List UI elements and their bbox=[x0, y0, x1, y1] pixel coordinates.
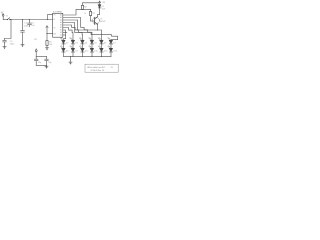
ground for oscillator bbox=[45, 65, 48, 69]
D12 label bbox=[104, 51, 107, 53]
wire osc rail bbox=[36, 55, 46, 57]
C4 value label bbox=[38, 62, 41, 64]
connector JP1 bbox=[35, 49, 37, 57]
LED D4 bbox=[79, 38, 84, 49]
LED D10 bbox=[79, 46, 84, 57]
LED D2 bbox=[60, 38, 65, 49]
D4 label bbox=[85, 43, 87, 45]
+9V supply symbol bbox=[99, 1, 106, 4]
svg-text:10n: 10n bbox=[31, 25, 34, 27]
svg-text:D11: D11 bbox=[94, 51, 97, 53]
node rail-C3 bbox=[29, 19, 30, 20]
svg-text:D4: D4 bbox=[85, 43, 87, 45]
capacitor C2 bbox=[3, 39, 7, 47]
wire pin stub 9 bbox=[63, 34, 66, 36]
switch S1 label bbox=[6, 16, 8, 18]
resistor R2 bbox=[81, 3, 83, 10]
svg-text:D8: D8 bbox=[66, 51, 68, 53]
resistor R3 bbox=[90, 9, 92, 21]
+V arrow for R1 pull-up bbox=[46, 26, 48, 28]
node pin1-R2 bbox=[82, 9, 83, 10]
diode D1 bbox=[98, 3, 101, 15]
svg-text:LED-Lauflicht mit PIC: LED-Lauflicht mit PIC bbox=[87, 66, 106, 69]
D7 label bbox=[113, 43, 115, 45]
wire bus W4 bbox=[63, 23, 92, 41]
svg-text:D2: D2 bbox=[66, 43, 68, 45]
LED D11 bbox=[89, 46, 94, 57]
IC U1 bbox=[53, 13, 63, 37]
svg-text:JP1: JP1 bbox=[34, 39, 37, 41]
svg-text:D6: D6 bbox=[104, 43, 106, 45]
wire osc bottom bbox=[36, 64, 46, 66]
svg-text:22p: 22p bbox=[48, 62, 51, 64]
node rail joints bbox=[73, 56, 103, 57]
ground for LED rail bbox=[69, 62, 72, 65]
svg-text:D12: D12 bbox=[104, 51, 107, 53]
ground for C2 bbox=[3, 47, 6, 50]
wire rail to ground bbox=[70, 56, 72, 62]
svg-text:S1: S1 bbox=[6, 16, 8, 18]
resistor R1 bbox=[46, 41, 48, 48]
wire bus W6 bbox=[63, 28, 73, 41]
wire pin stub 8 bbox=[63, 32, 67, 34]
C5 value label bbox=[48, 62, 51, 64]
capacitor C1 bbox=[21, 20, 25, 45]
wire to C2 bbox=[5, 20, 12, 39]
D6 label bbox=[104, 43, 106, 45]
capacitor C3 bbox=[28, 20, 32, 27]
D5 label bbox=[94, 43, 96, 45]
wire bus W3 bbox=[63, 20, 102, 40]
svg-text:4148: 4148 bbox=[102, 9, 106, 11]
IC U1 label bbox=[53, 12, 62, 14]
svg-text:D13: D13 bbox=[113, 51, 116, 53]
D2 label bbox=[66, 43, 68, 45]
wire top rail to +9V bbox=[83, 2, 100, 4]
wire bus W7 bbox=[63, 30, 66, 40]
wire pin1 node line bbox=[63, 9, 91, 15]
C1 value label bbox=[24, 23, 28, 28]
capacitor C5 bbox=[45, 56, 49, 65]
svg-text:D9: D9 bbox=[75, 51, 77, 53]
D8 label bbox=[66, 51, 68, 53]
C3 value label bbox=[31, 22, 34, 27]
R3 value label bbox=[92, 13, 94, 15]
svg-text:R2: R2 bbox=[84, 7, 86, 9]
LED D13 bbox=[108, 46, 113, 57]
D10 label bbox=[85, 51, 88, 53]
connector JP1 label bbox=[34, 39, 37, 41]
LED D3 bbox=[70, 38, 75, 49]
transistor T1 bbox=[93, 15, 100, 30]
battery BT1 label bbox=[1, 12, 4, 14]
svg-text:D7: D7 bbox=[113, 43, 115, 45]
title block text bbox=[87, 66, 113, 72]
LED D5 bbox=[89, 38, 94, 49]
title block frame bbox=[85, 64, 118, 72]
D3 label bbox=[75, 43, 77, 45]
wire base bbox=[91, 20, 95, 22]
D13 label bbox=[113, 51, 116, 53]
node rail-ground bbox=[70, 56, 71, 57]
svg-text:10k: 10k bbox=[49, 44, 52, 46]
wire MCLR column bbox=[46, 28, 52, 41]
LED D8 bbox=[60, 46, 65, 57]
LED D9 bbox=[70, 46, 75, 57]
D9 label bbox=[75, 51, 77, 53]
capacitor C4 bbox=[34, 56, 38, 65]
svg-text:22p: 22p bbox=[38, 62, 41, 64]
ground for C1 bbox=[21, 45, 24, 48]
svg-text:100n: 100n bbox=[24, 25, 28, 27]
T1 label bbox=[100, 19, 105, 24]
D1 label bbox=[102, 6, 106, 10]
battery BT1 bbox=[2, 14, 4, 20]
svg-text:R3: R3 bbox=[92, 13, 94, 15]
wire VDD riser bbox=[47, 15, 53, 20]
switch S1 bbox=[3, 18, 10, 20]
svg-text:BC547: BC547 bbox=[100, 21, 105, 23]
svg-text:B4: B4 bbox=[60, 35, 62, 37]
svg-text:D5: D5 bbox=[94, 43, 96, 45]
IC U1 pin names bbox=[53, 14, 62, 37]
wire bus W2 bbox=[63, 18, 118, 41]
LED D7 bbox=[108, 38, 113, 49]
svg-text:D10: D10 bbox=[85, 51, 88, 53]
C2 value label bbox=[10, 41, 14, 46]
wire supply rail bbox=[10, 19, 53, 21]
svg-text:D3: D3 bbox=[75, 43, 77, 45]
R1 value label bbox=[49, 42, 52, 47]
LED D12 bbox=[98, 46, 103, 57]
node emitter-W3 bbox=[97, 29, 98, 30]
node rail-C1 bbox=[22, 19, 23, 20]
LED D6 bbox=[98, 38, 103, 49]
ground for R1 bbox=[45, 48, 48, 51]
wire bus W5 bbox=[63, 25, 83, 40]
svg-text:D1: D1 bbox=[102, 6, 104, 8]
R2 value label bbox=[84, 7, 86, 16]
svg-text:12.04.02 Rev 1.0: 12.04.02 Rev 1.0 bbox=[91, 70, 105, 72]
node rail-C2 bbox=[10, 19, 11, 20]
svg-text:1k: 1k bbox=[84, 13, 86, 15]
wire cathode rail bbox=[64, 55, 112, 57]
D11 label bbox=[94, 51, 97, 53]
svg-text:100u: 100u bbox=[10, 44, 14, 46]
svg-text:1/1: 1/1 bbox=[111, 67, 113, 69]
